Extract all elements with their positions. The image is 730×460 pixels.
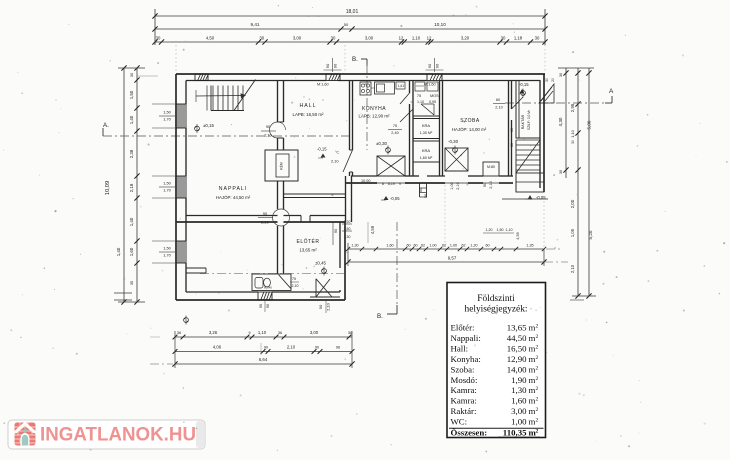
svg-text:Előtér:: Előtér:	[451, 323, 475, 333]
svg-text:62: 62	[442, 244, 446, 248]
svg-text:1,50: 1,50	[163, 110, 171, 115]
svg-text:-0,05: -0,05	[390, 196, 400, 201]
svg-text:50: 50	[344, 22, 349, 27]
svg-text:90: 90	[266, 304, 270, 308]
svg-text:±0,30: ±0,30	[376, 141, 388, 146]
svg-text:90: 90	[315, 346, 319, 350]
svg-text:1,35: 1,35	[526, 244, 533, 248]
svg-text:1,00: 1,00	[450, 244, 457, 248]
svg-text:m: m	[529, 333, 536, 343]
svg-text:1,90: 1,90	[511, 375, 527, 385]
svg-text:1,50: 1,50	[163, 181, 171, 186]
svg-text:2,10: 2,10	[570, 264, 575, 273]
svg-text:2: 2	[536, 397, 539, 403]
svg-text:-0,15: -0,15	[317, 147, 327, 152]
svg-text:13,65: 13,65	[507, 323, 527, 333]
svg-text:90: 90	[435, 63, 440, 68]
svg-text:90: 90	[334, 229, 338, 233]
svg-text:1,20: 1,20	[486, 228, 493, 232]
svg-text:44,50: 44,50	[507, 333, 527, 343]
svg-text:90: 90	[259, 304, 263, 308]
svg-text:Konyha:: Konyha:	[451, 354, 481, 364]
svg-text:±0,45: ±0,45	[315, 261, 327, 266]
svg-text:1,50: 1,50	[163, 246, 171, 251]
svg-text:1,60: 1,60	[129, 247, 134, 256]
svg-text:HAJÓP: 14,00 m²: HAJÓP: 14,00 m²	[452, 127, 487, 132]
svg-text:2,10: 2,10	[331, 159, 339, 164]
svg-text:1,70: 1,70	[163, 253, 171, 258]
svg-text:30: 30	[571, 140, 575, 144]
svg-text:35: 35	[130, 281, 134, 285]
svg-text:m: m	[529, 406, 536, 416]
svg-text:3,20: 3,20	[461, 36, 470, 41]
svg-text:LAPB: 16,50 m²: LAPB: 16,50 m²	[293, 112, 325, 117]
svg-text:1,60: 1,60	[386, 244, 393, 248]
svg-text:ELŐTÉR: ELŐTÉR	[296, 238, 319, 245]
svg-text:SZOBA: SZOBA	[460, 118, 480, 124]
svg-text:Hall:: Hall:	[451, 343, 469, 353]
svg-text:1,60: 1,60	[511, 396, 527, 406]
svg-text:1,50: 1,50	[344, 227, 351, 231]
svg-text:1,10: 1,10	[506, 228, 513, 232]
svg-text:9,57: 9,57	[448, 256, 457, 261]
svg-text:14,00: 14,00	[507, 364, 527, 374]
svg-text:4,50: 4,50	[206, 36, 215, 41]
svg-text:90: 90	[483, 183, 487, 187]
svg-text:10,10: 10,10	[434, 22, 446, 27]
svg-text:36: 36	[348, 331, 352, 335]
svg-text:60: 60	[496, 98, 500, 102]
svg-text:75: 75	[292, 277, 296, 281]
svg-text:-0,05: -0,05	[536, 195, 546, 200]
svg-text:8,19: 8,19	[388, 182, 395, 186]
svg-text:m: m	[529, 364, 536, 374]
svg-text:1,30: 1,30	[351, 244, 358, 248]
svg-text:2,00: 2,00	[570, 199, 575, 208]
svg-text:°C: °C	[335, 151, 339, 155]
svg-text:8: 8	[382, 182, 384, 186]
svg-text:62: 62	[421, 244, 425, 248]
svg-text:1,50: 1,50	[497, 228, 504, 232]
svg-text:KRA: KRA	[422, 148, 431, 153]
svg-text:12: 12	[427, 36, 432, 41]
svg-text:2,10: 2,10	[287, 345, 296, 350]
svg-text:4,06: 4,06	[213, 345, 222, 350]
svg-text:50: 50	[424, 194, 428, 198]
svg-text:5,06: 5,06	[587, 120, 592, 129]
svg-text:1,00: 1,00	[429, 244, 436, 248]
svg-text:1,10: 1,10	[417, 100, 424, 104]
svg-text:2,18: 2,18	[129, 183, 134, 192]
svg-text:9: 9	[249, 331, 251, 335]
svg-text:90: 90	[427, 63, 432, 68]
svg-text:2,95: 2,95	[570, 103, 575, 112]
svg-text:13,65 m²: 13,65 m²	[299, 248, 317, 253]
svg-text:90: 90	[264, 346, 268, 350]
svg-text:4,59: 4,59	[370, 225, 375, 234]
svg-text:9,41: 9,41	[251, 22, 260, 27]
svg-text:2,10: 2,10	[261, 220, 270, 225]
svg-text:-0,30: -0,30	[448, 139, 459, 144]
svg-text:1,20: 1,20	[470, 244, 477, 248]
svg-text:75: 75	[417, 94, 421, 98]
svg-text:60: 60	[406, 244, 410, 248]
svg-text:1,20: 1,20	[344, 220, 351, 224]
svg-text:3,00: 3,00	[511, 406, 527, 416]
svg-text:m: m	[529, 385, 536, 395]
svg-text:2,10: 2,10	[264, 133, 272, 138]
svg-text:RAKTÁR: RAKTÁR	[521, 114, 525, 129]
svg-text:2: 2	[536, 324, 539, 330]
svg-text:M:80: M:80	[487, 165, 495, 169]
svg-text:m: m	[529, 354, 536, 364]
svg-text:1,70: 1,70	[163, 117, 171, 122]
svg-text:4,59: 4,59	[516, 232, 520, 239]
svg-text:2: 2	[536, 376, 539, 382]
svg-text:Nappali:: Nappali:	[451, 333, 481, 343]
svg-text:1,30 M²: 1,30 M²	[420, 131, 433, 135]
svg-text:m: m	[529, 417, 536, 427]
svg-text:30: 30	[130, 73, 134, 77]
svg-text:1,10: 1,10	[412, 36, 421, 41]
svg-text:Raktár:: Raktár:	[451, 406, 477, 416]
svg-text:1,40: 1,40	[129, 115, 134, 124]
svg-text:-0,15: -0,15	[519, 82, 529, 87]
svg-text:m: m	[529, 396, 536, 406]
svg-text:2,10: 2,10	[489, 181, 493, 188]
svg-text:2: 2	[536, 334, 539, 340]
svg-text:KONYHA: KONYHA	[362, 106, 386, 112]
svg-text:2: 2	[536, 428, 539, 434]
svg-text:36: 36	[177, 331, 181, 335]
svg-text:helyiségjegyzék:: helyiségjegyzék:	[465, 305, 528, 315]
svg-text:30: 30	[331, 36, 336, 41]
svg-text:10,00: 10,00	[361, 179, 371, 183]
svg-text:60: 60	[413, 244, 417, 248]
svg-text:110,35: 110,35	[503, 427, 527, 437]
svg-text:10,09: 10,09	[105, 181, 111, 196]
svg-text:LAPB: 12,90 m²: LAPB: 12,90 m²	[359, 114, 391, 119]
svg-text:9: 9	[399, 182, 401, 186]
svg-text:18,01: 18,01	[346, 9, 359, 15]
svg-text:M:1,60: M:1,60	[317, 83, 329, 87]
svg-text:KRA: KRA	[422, 123, 431, 128]
svg-text:0,95: 0,95	[429, 100, 436, 104]
svg-text:90: 90	[325, 63, 330, 68]
svg-text:Kamra:: Kamra:	[451, 385, 477, 395]
svg-text:KÉM: KÉM	[279, 162, 284, 170]
svg-text:HAJÓP: 44,50 m²: HAJÓP: 44,50 m²	[216, 195, 251, 200]
svg-text:30: 30	[559, 73, 563, 77]
svg-text:3,00: 3,00	[293, 36, 302, 41]
svg-text:A.: A.	[103, 122, 109, 129]
svg-text:30: 30	[156, 36, 161, 41]
svg-text:60x40: 60x40	[264, 286, 272, 290]
svg-text:1,00: 1,00	[450, 182, 454, 189]
svg-text:75: 75	[393, 124, 397, 128]
svg-text:1,40: 1,40	[116, 247, 121, 256]
svg-text:Szoba:: Szoba:	[451, 364, 475, 374]
svg-text:1,60 M²: 1,60 M²	[420, 156, 433, 160]
svg-text:30: 30	[501, 36, 506, 41]
svg-text:2,10: 2,10	[456, 182, 460, 189]
svg-text:1,00: 1,00	[511, 417, 527, 427]
svg-text:60: 60	[485, 244, 489, 248]
svg-text:A: A	[609, 88, 614, 95]
svg-text:30: 30	[259, 36, 264, 41]
svg-text:90: 90	[333, 63, 338, 68]
svg-text:Összesen:: Összesen:	[451, 427, 488, 437]
svg-text:MOS: MOS	[430, 94, 439, 98]
svg-text:2,10: 2,10	[495, 106, 502, 110]
svg-text:2: 2	[536, 386, 539, 392]
svg-text:30: 30	[559, 170, 563, 174]
svg-text:60: 60	[510, 143, 514, 147]
svg-text:1,05: 1,05	[570, 228, 575, 237]
svg-text:3,26: 3,26	[209, 330, 218, 335]
svg-text:m: m	[529, 375, 536, 385]
svg-text:6,64: 6,64	[259, 357, 268, 362]
svg-text:60: 60	[510, 128, 514, 132]
svg-text:NAPPALI: NAPPALI	[219, 186, 248, 192]
svg-text:90: 90	[318, 304, 323, 309]
svg-text:1,70: 1,70	[163, 188, 171, 193]
svg-text:90: 90	[263, 211, 268, 216]
svg-text:1,50: 1,50	[129, 90, 134, 99]
svg-text:12,90: 12,90	[507, 354, 527, 364]
svg-text:30: 30	[545, 78, 549, 82]
svg-text:16,50: 16,50	[507, 343, 527, 353]
svg-text:m: m	[529, 323, 536, 333]
svg-text:3,00: 3,00	[365, 36, 374, 41]
svg-text:12: 12	[399, 36, 404, 41]
svg-text:M:1,60: M:1,60	[424, 83, 436, 87]
svg-text:1,10: 1,10	[570, 129, 575, 137]
svg-text:1,30: 1,30	[511, 385, 527, 395]
svg-text:Kamra:: Kamra:	[451, 396, 477, 406]
svg-text:HALL: HALL	[300, 103, 317, 109]
svg-text:20: 20	[551, 78, 555, 82]
svg-text:Mosdó:: Mosdó:	[451, 375, 478, 385]
svg-text:96: 96	[336, 346, 340, 350]
svg-text:2: 2	[536, 355, 539, 361]
svg-text:±0,15: ±0,15	[203, 123, 215, 128]
svg-text:SZILF: 3,0 M²: SZILF: 3,0 M²	[527, 109, 531, 130]
svg-text:1,61: 1,61	[398, 84, 404, 88]
svg-text:1,30: 1,30	[344, 235, 351, 239]
svg-text:30: 30	[535, 36, 540, 41]
svg-text:3,00: 3,00	[310, 330, 319, 335]
svg-text:5,20: 5,20	[588, 230, 593, 239]
svg-text:Földszinti: Földszinti	[477, 294, 515, 304]
svg-text:4,30: 4,30	[558, 117, 563, 126]
svg-text:2,38: 2,38	[129, 149, 134, 158]
svg-text:2: 2	[536, 418, 539, 424]
svg-text:1,40: 1,40	[129, 217, 134, 226]
svg-text:2,40: 2,40	[391, 131, 398, 135]
svg-text:62: 62	[461, 244, 465, 248]
svg-text:36: 36	[278, 331, 282, 335]
svg-text:INGATLANOK.HU: INGATLANOK.HU	[40, 425, 196, 446]
svg-text:B.: B.	[377, 313, 383, 320]
svg-text:1,10: 1,10	[514, 36, 523, 41]
svg-text:WC:: WC:	[451, 417, 468, 427]
svg-text:1,10: 1,10	[258, 330, 267, 335]
svg-text:2: 2	[536, 407, 539, 413]
svg-text:B.: B.	[352, 56, 358, 63]
svg-text:2: 2	[536, 365, 539, 371]
svg-text:2: 2	[536, 344, 539, 350]
svg-text:m: m	[529, 343, 536, 353]
